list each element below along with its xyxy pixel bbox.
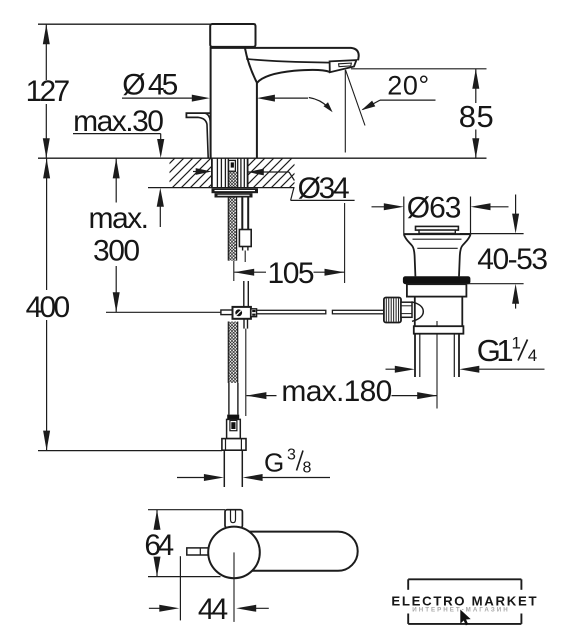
svg-text:20°: 20° xyxy=(387,71,429,101)
svg-text:400: 400 xyxy=(26,291,70,324)
svg-text:max.180: max.180 xyxy=(281,375,391,408)
svg-text:G1: G1 xyxy=(477,333,513,368)
svg-text:300: 300 xyxy=(93,234,139,267)
svg-text:G: G xyxy=(264,448,284,478)
svg-text:Ø63: Ø63 xyxy=(407,192,461,225)
svg-text:max.: max. xyxy=(88,202,147,235)
svg-text:44: 44 xyxy=(198,593,228,626)
svg-text:1: 1 xyxy=(512,334,521,353)
svg-text:85: 85 xyxy=(459,99,494,134)
svg-text:Ø34: Ø34 xyxy=(298,172,349,205)
svg-text:127: 127 xyxy=(26,75,70,108)
svg-text:3: 3 xyxy=(287,447,296,464)
svg-text:40-53: 40-53 xyxy=(477,243,547,276)
svg-text:105: 105 xyxy=(268,257,314,290)
svg-text:4: 4 xyxy=(528,346,537,365)
svg-text:8: 8 xyxy=(303,460,312,477)
svg-text:Ø 45: Ø 45 xyxy=(122,69,177,102)
